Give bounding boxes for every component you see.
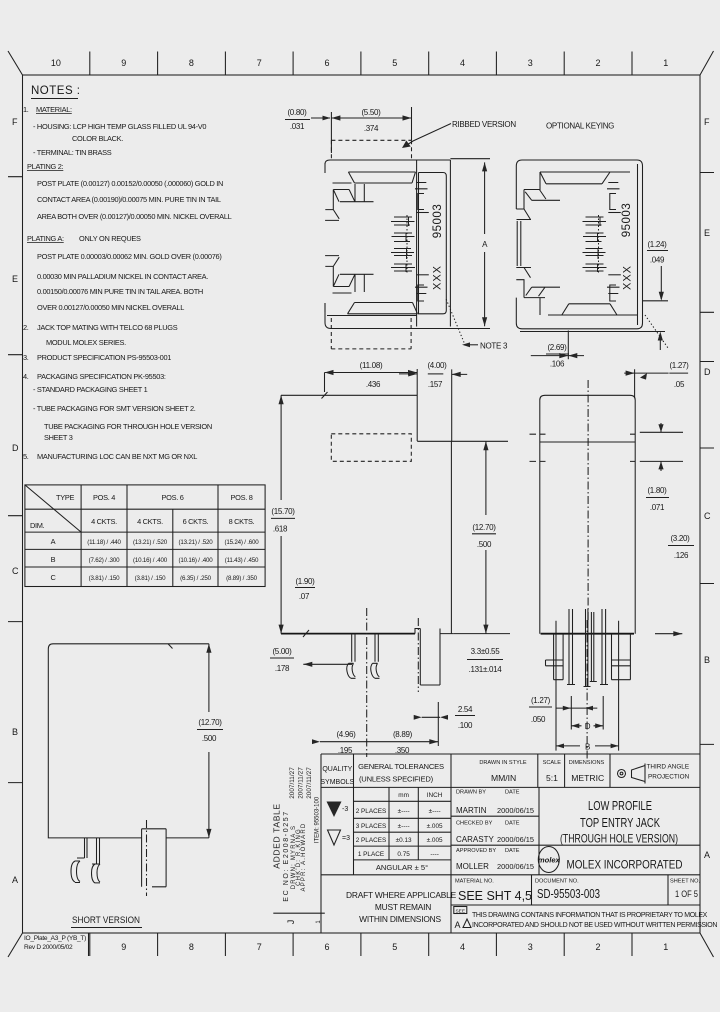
svg-text:(12.70): (12.70) xyxy=(472,523,496,532)
svg-text:2000/06/15: 2000/06/15 xyxy=(497,806,534,815)
svg-text:1.: 1. xyxy=(23,105,29,114)
svg-text:QUALITY: QUALITY xyxy=(322,766,352,773)
svg-text:±.005: ±.005 xyxy=(427,823,443,830)
svg-text:.100: .100 xyxy=(458,721,473,730)
post centerline xyxy=(146,820,148,896)
svg-text:(11.43) / .450: (11.43) / .450 xyxy=(225,557,259,564)
NOTES xyxy=(23,85,232,461)
MIDVIEW xyxy=(270,361,510,757)
dim 15.70/.618 xyxy=(280,395,282,633)
tolerance table text xyxy=(356,792,443,858)
svg-text:POS. 6: POS. 6 xyxy=(161,493,183,502)
left zone letters xyxy=(12,117,19,885)
keying tab double line xyxy=(517,221,521,266)
svg-text:SYMBOLS: SYMBOLS xyxy=(320,779,354,786)
svg-text:2 PLACES: 2 PLACES xyxy=(356,837,387,844)
svg-text:4 CKTS.: 4 CKTS. xyxy=(91,517,117,526)
pin hook left xyxy=(71,861,80,883)
top chamfer xyxy=(524,190,560,201)
TITLEBLOCK xyxy=(271,754,717,933)
svg-text:- TERMINAL: TIN BRASS: - TERMINAL: TIN BRASS xyxy=(33,148,112,157)
svg-text:(11.18) / .440: (11.18) / .440 xyxy=(87,539,121,546)
svg-text:95003: 95003 xyxy=(621,203,633,237)
note3 dotted leader right xyxy=(645,315,668,348)
svg-text:OVER 0.00127/0.00050 MIN NICKE: OVER 0.00127/0.00050 MIN NICKEL OVERALL xyxy=(37,303,184,312)
svg-text:A: A xyxy=(12,875,18,885)
svg-text:- STANDARD PACKAGING SHEET 1: - STANDARD PACKAGING SHEET 1 xyxy=(33,385,148,394)
post centerline xyxy=(417,618,419,692)
svg-text:(10.16) / .400: (10.16) / .400 xyxy=(178,557,213,564)
svg-text:C: C xyxy=(12,566,19,576)
svg-text:(6.35) / .250: (6.35) / .250 xyxy=(180,575,212,582)
svg-text:3: 3 xyxy=(528,942,533,952)
svg-text:SEE: SEE xyxy=(455,908,465,914)
svg-text:D: D xyxy=(12,443,19,453)
jack right edge xyxy=(449,160,451,327)
bottom trapezoid xyxy=(348,303,418,314)
svg-text:(12.70): (12.70) xyxy=(198,718,222,727)
extension lines xyxy=(556,621,619,751)
svg-text:4: 4 xyxy=(460,58,465,68)
corner cut bottom-left xyxy=(8,933,23,957)
svg-text:molex: molex xyxy=(538,856,561,865)
bottom zone ticks xyxy=(90,933,632,956)
cap line xyxy=(540,441,635,443)
svg-text:SHEET NO.: SHEET NO. xyxy=(670,879,700,885)
right zone letters xyxy=(704,117,711,860)
svg-text:DRAWN BY: DRAWN BY xyxy=(456,790,486,796)
svg-text:1: 1 xyxy=(663,942,668,952)
svg-text:3.: 3. xyxy=(23,353,29,362)
svg-text:METRIC: METRIC xyxy=(571,773,604,783)
svg-text:(10.16) / .400: (10.16) / .400 xyxy=(133,557,168,564)
svg-text:THIRD ANGLE: THIRD ANGLE xyxy=(647,764,690,771)
svg-text:.500: .500 xyxy=(477,540,492,549)
svg-text:- HOUSING: LCP HIGH TEMP GLASS: - HOUSING: LCP HIGH TEMP GLASS FILLED UL… xyxy=(33,122,206,131)
row line under header xyxy=(321,786,700,788)
bottom step xyxy=(562,304,617,315)
svg-text:B: B xyxy=(704,655,710,665)
svg-text:2007/11/27: 2007/11/27 xyxy=(306,767,313,799)
left edge stubs xyxy=(324,163,326,312)
svg-text:.157: .157 xyxy=(428,380,443,389)
svg-text:(4.96): (4.96) xyxy=(336,730,356,739)
svg-text:OPTIONAL KEYING: OPTIONAL KEYING xyxy=(546,122,614,131)
ribbed version dashed outline bottom xyxy=(331,318,411,349)
svg-text:J: J xyxy=(286,920,296,925)
extension tick xyxy=(322,392,328,399)
svg-text:DIM.: DIM. xyxy=(30,521,45,530)
svg-text:8 CKTS.: 8 CKTS. xyxy=(229,517,255,526)
svg-text:DATE: DATE xyxy=(505,821,520,827)
svg-text:(8.89): (8.89) xyxy=(393,730,413,739)
pin foot left xyxy=(347,663,356,678)
svg-text:±----: ±---- xyxy=(398,823,410,830)
outline xyxy=(321,754,700,933)
svg-text:(11.08): (11.08) xyxy=(360,361,383,370)
right zone ticks xyxy=(700,173,714,745)
bracket marks xyxy=(607,183,621,302)
pin feet xyxy=(567,682,608,687)
svg-text:PRODUCT SPECIFICATION PS-95503: PRODUCT SPECIFICATION PS-95503-001 xyxy=(37,353,171,362)
svg-text:1 OF 5: 1 OF 5 xyxy=(675,889,698,899)
svg-text:(UNLESS SPECIFIED): (UNLESS SPECIFIED) xyxy=(359,775,434,784)
dashed window xyxy=(331,434,411,462)
keying stepped profile xyxy=(516,190,545,298)
svg-text:A: A xyxy=(704,850,710,860)
svg-text:±----: ±---- xyxy=(398,808,410,815)
svg-text:.500: .500 xyxy=(202,734,217,743)
svg-text:TUBE PACKAGING FOR THROUGH HOL: TUBE PACKAGING FOR THROUGH HOLE VERSION xyxy=(44,422,212,431)
svg-text:----: ---- xyxy=(430,851,439,858)
svg-text:(1.24): (1.24) xyxy=(647,240,667,249)
post right xyxy=(612,634,631,680)
svg-text:(THROUGH HOLE VERSION): (THROUGH HOLE VERSION) xyxy=(560,833,678,846)
svg-text:E: E xyxy=(12,274,18,284)
body right edge xyxy=(450,441,452,633)
svg-text:MANUFACTURING LOC CAN BE NXT M: MANUFACTURING LOC CAN BE NXT MG OR NXL xyxy=(37,452,197,461)
svg-text:(4.00): (4.00) xyxy=(427,361,447,370)
svg-text:Rev D 2000/05/02: Rev D 2000/05/02 xyxy=(24,944,73,951)
bottom edge xyxy=(541,633,634,635)
svg-text:(2.69): (2.69) xyxy=(547,343,567,352)
svg-text:- TUBE PACKAGING FOR SMT VERSI: - TUBE PACKAGING FOR SMT VERSION SHEET 2… xyxy=(33,404,196,413)
bottom zone numbers xyxy=(121,942,668,952)
svg-text:B: B xyxy=(12,727,18,737)
svg-text:.126: .126 xyxy=(674,551,689,560)
svg-text:.050: .050 xyxy=(531,715,546,724)
svg-text:8: 8 xyxy=(189,58,194,68)
TABLE xyxy=(25,485,265,587)
svg-text:TYPE: TYPE xyxy=(56,493,74,502)
svg-text:2.: 2. xyxy=(23,323,29,332)
row A xyxy=(51,537,260,546)
svg-text:ADDED TABLE: ADDED TABLE xyxy=(271,803,281,869)
svg-text:5:1: 5:1 xyxy=(546,773,558,783)
svg-text:3 PLACES: 3 PLACES xyxy=(356,823,387,830)
inner outline xyxy=(540,164,638,325)
svg-text:XXX: XXX xyxy=(432,265,444,290)
svg-text:ANGULAR ± 5°: ANGULAR ± 5° xyxy=(376,863,428,872)
svg-text:CHECKED BY: CHECKED BY xyxy=(456,821,493,827)
svg-text:2000/06/15: 2000/06/15 xyxy=(497,835,534,844)
quality symbol filled triangle xyxy=(327,802,342,818)
height dim 12.70/.500 xyxy=(208,644,210,838)
svg-text:6: 6 xyxy=(324,58,329,68)
lower latch xyxy=(325,256,373,293)
dim 12.70/.500 xyxy=(485,441,487,633)
svg-text:(5.50): (5.50) xyxy=(361,108,381,117)
drawn by column xyxy=(538,787,540,874)
svg-text:.106: .106 xyxy=(550,360,565,369)
svg-text:±.005: ±.005 xyxy=(427,837,443,844)
A dim xyxy=(331,159,490,329)
svg-text:5.: 5. xyxy=(23,452,29,461)
svg-text:RIBBED VERSION: RIBBED VERSION xyxy=(452,120,516,129)
solder post xyxy=(142,829,167,887)
svg-text:ONLY ON REQUES: ONLY ON REQUES xyxy=(79,234,141,243)
svg-text:.07: .07 xyxy=(299,592,310,601)
svg-text:MUST REMAIN: MUST REMAIN xyxy=(375,902,431,912)
extension tick bottom xyxy=(303,630,309,637)
svg-text:4.: 4. xyxy=(23,372,29,381)
body outline xyxy=(516,160,642,329)
svg-text:4 CKTS.: 4 CKTS. xyxy=(137,517,163,526)
svg-text:NOTE 3: NOTE 3 xyxy=(480,342,508,351)
svg-text:(3.81) / .150: (3.81) / .150 xyxy=(135,575,167,582)
bottom chamfer xyxy=(526,287,560,296)
svg-text:DRAFT WHERE APPLICABLE: DRAFT WHERE APPLICABLE xyxy=(346,890,457,900)
pins xyxy=(569,609,606,686)
drawing frame xyxy=(23,75,701,933)
svg-text:APPR: A.HOWARD: APPR: A.HOWARD xyxy=(301,823,307,892)
svg-text:6: 6 xyxy=(324,942,329,952)
svg-text:(3.81) / .150: (3.81) / .150 xyxy=(89,575,121,582)
svg-text:.071: .071 xyxy=(650,503,665,512)
svg-text:(8.89) / .350: (8.89) / .350 xyxy=(226,575,258,582)
svg-text:2: 2 xyxy=(595,58,600,68)
svg-text:=3: =3 xyxy=(342,835,350,842)
centerline xyxy=(587,380,589,620)
svg-text:.031: .031 xyxy=(290,122,305,131)
pin hook right xyxy=(92,864,101,883)
svg-text:TOP ENTRY JACK: TOP ENTRY JACK xyxy=(580,816,660,830)
svg-text:(1.27): (1.27) xyxy=(531,696,551,705)
svg-text:.374: .374 xyxy=(364,124,379,133)
post left xyxy=(554,634,564,680)
svg-text:ITEM: 95503-100: ITEM: 95503-100 xyxy=(315,796,321,843)
svg-text:A: A xyxy=(51,537,56,546)
svg-text:MODUL MOLEX SERIES.: MODUL MOLEX SERIES. xyxy=(46,338,126,347)
svg-text:EC NO: E2008-0257: EC NO: E2008-0257 xyxy=(283,810,290,901)
front pins xyxy=(85,838,100,864)
svg-text:±----: ±---- xyxy=(429,808,441,815)
svg-text:F: F xyxy=(12,117,18,127)
svg-text:2 PLACES: 2 PLACES xyxy=(356,808,387,815)
svg-text:8: 8 xyxy=(189,942,194,952)
bottom extension line xyxy=(520,331,665,333)
svg-text:.178: .178 xyxy=(275,664,290,673)
svg-text:(13.21) / .520: (13.21) / .520 xyxy=(178,539,213,546)
corner cut bottom-right xyxy=(700,933,714,957)
pins xyxy=(352,634,379,662)
svg-text:mm: mm xyxy=(398,792,409,799)
svg-text:6 CKTS.: 6 CKTS. xyxy=(183,517,209,526)
svg-text:MM/IN: MM/IN xyxy=(491,773,516,783)
svg-text:POS. 8: POS. 8 xyxy=(230,493,252,502)
row B xyxy=(51,555,259,564)
svg-text:3: 3 xyxy=(528,58,533,68)
solder post xyxy=(420,629,440,686)
svg-text:PACKAGING SPECIFICATION PK-955: PACKAGING SPECIFICATION PK-95503: xyxy=(37,372,166,381)
svg-text:(15.24) / .600: (15.24) / .600 xyxy=(224,539,259,546)
svg-text:10: 10 xyxy=(51,58,61,68)
svg-text:POST PLATE (0.00127) 0.00152/0: POST PLATE (0.00127) 0.00152/0.00050 (.0… xyxy=(37,179,223,188)
svg-text:2: 2 xyxy=(595,942,600,952)
RIGHTJACK xyxy=(516,122,668,369)
svg-text:COLOR BLACK.: COLOR BLACK. xyxy=(72,134,123,143)
left zone ticks xyxy=(8,177,23,783)
see box xyxy=(454,907,467,914)
quality symbol open triangle xyxy=(328,830,341,845)
svg-text:INCH: INCH xyxy=(427,792,443,799)
svg-text:(7.62) / .300: (7.62) / .300 xyxy=(89,557,121,564)
svg-text:DOCUMENT NO.: DOCUMENT NO. xyxy=(535,879,579,885)
svg-text:SEE SHT 4,5: SEE SHT 4,5 xyxy=(458,889,532,903)
svg-text:2007/11/27: 2007/11/27 xyxy=(289,767,296,799)
svg-text:7: 7 xyxy=(257,942,262,952)
svg-text:-3: -3 xyxy=(342,806,348,813)
marking plate xyxy=(419,173,447,314)
svg-text:JACK TOP MATING WITH TELCO 68: JACK TOP MATING WITH TELCO 68 PLUGS xyxy=(37,323,178,332)
body centerline xyxy=(366,608,368,757)
svg-text:DATE: DATE xyxy=(505,790,520,796)
svg-text:INCORPORATED AND SHOULD NOT BE: INCORPORATED AND SHOULD NOT BE USED WITH… xyxy=(472,922,717,929)
svg-text:GENERAL TOLERANCES: GENERAL TOLERANCES xyxy=(358,762,444,771)
svg-text:.131±.014: .131±.014 xyxy=(469,665,503,674)
svg-text:DIMENSIONS: DIMENSIONS xyxy=(569,760,605,766)
row C xyxy=(50,573,257,582)
svg-text:POS. 4: POS. 4 xyxy=(93,493,115,502)
body top edge with dim extension xyxy=(281,394,417,396)
svg-text:E: E xyxy=(704,228,710,238)
svg-text:MARTIN: MARTIN xyxy=(456,806,487,815)
svg-text:THIS DRAWING CONTAINS INFORMAT: THIS DRAWING CONTAINS INFORMATION THAT I… xyxy=(472,912,708,919)
svg-text:5: 5 xyxy=(392,942,397,952)
contact comb xyxy=(391,215,415,273)
dim B xyxy=(556,745,619,747)
svg-text:2.54: 2.54 xyxy=(458,705,473,714)
svg-text:APPROVED BY: APPROVED BY xyxy=(456,848,496,854)
svg-text:C: C xyxy=(704,511,711,521)
svg-text:0.00030 MIN PALLADIUM NICKEL I: 0.00030 MIN PALLADIUM NICKEL IN CONTACT … xyxy=(37,272,208,281)
svg-text:(3.20): (3.20) xyxy=(670,534,690,543)
svg-text:SHEET 3: SHEET 3 xyxy=(44,433,73,442)
svg-text:7: 7 xyxy=(257,58,262,68)
pin foot right xyxy=(371,663,380,678)
dimension table grid xyxy=(25,485,265,587)
SHORTVIEW xyxy=(48,644,223,928)
top zone numbers xyxy=(51,58,668,68)
jack body bottom edge xyxy=(325,303,417,329)
svg-text:4: 4 xyxy=(460,942,465,952)
svg-text:PLATING 2:: PLATING 2: xyxy=(27,162,64,171)
svg-text:(0.80): (0.80) xyxy=(287,108,307,117)
svg-text:LOW PROFILE: LOW PROFILE xyxy=(588,799,652,813)
body outline xyxy=(540,395,635,633)
svg-text:DATE: DATE xyxy=(505,848,520,854)
third angle projection symbol xyxy=(618,770,626,778)
RIGHTVIEW xyxy=(529,361,694,759)
svg-text:SD-95503-003: SD-95503-003 xyxy=(537,887,600,901)
molex logo xyxy=(538,847,559,873)
corner cut top-left xyxy=(8,51,23,75)
svg-text:(1.80): (1.80) xyxy=(647,486,667,495)
svg-text:D: D xyxy=(704,367,711,377)
dim D xyxy=(571,725,603,727)
svg-text:F: F xyxy=(704,117,710,127)
svg-text:CONTACT AREA (0.00190)/0.00075: CONTACT AREA (0.00190)/0.00075 MIN. PURE… xyxy=(37,195,221,204)
svg-text:CARASTY: CARASTY xyxy=(456,835,494,844)
svg-text:WITHIN DIMENSIONS: WITHIN DIMENSIONS xyxy=(359,914,441,924)
svg-text:9: 9 xyxy=(121,942,126,952)
svg-text:3.3±0.55: 3.3±0.55 xyxy=(471,647,501,656)
svg-text:MATERIAL NO.: MATERIAL NO. xyxy=(455,879,494,885)
svg-text:PLATING A:: PLATING A: xyxy=(27,234,64,243)
svg-text:±0.13: ±0.13 xyxy=(396,837,412,844)
svg-text:1: 1 xyxy=(663,58,668,68)
sheet id box bottom-left xyxy=(88,933,90,956)
svg-text:(1.27): (1.27) xyxy=(669,361,689,370)
datum dashes xyxy=(530,434,636,461)
svg-text:(5.00): (5.00) xyxy=(272,647,292,656)
svg-text:SCALE: SCALE xyxy=(543,760,562,766)
contact comb xyxy=(583,215,607,273)
latch block xyxy=(417,369,508,441)
corner cut top-right xyxy=(700,51,714,75)
front face line xyxy=(416,160,418,327)
svg-text:95003: 95003 xyxy=(432,204,444,238)
svg-text:PROJECTION: PROJECTION xyxy=(648,774,690,781)
diagonal cell xyxy=(25,485,81,532)
svg-text:POST PLATE 0.00003/0.00062 MIN: POST PLATE 0.00003/0.00062 MIN. GOLD OVE… xyxy=(37,252,222,261)
svg-text:MOLEX INCORPORATED: MOLEX INCORPORATED xyxy=(567,858,683,872)
svg-text:(15.70): (15.70) xyxy=(271,507,295,516)
svg-text:XXX: XXX xyxy=(622,265,634,290)
svg-text:(1.90): (1.90) xyxy=(295,577,315,586)
svg-text:2000/06/15: 2000/06/15 xyxy=(497,862,534,871)
top trapezoid xyxy=(348,172,415,183)
body bottom edge xyxy=(281,633,415,635)
svg-text:NOTES :: NOTES : xyxy=(31,85,81,97)
svg-text:.618: .618 xyxy=(273,525,288,534)
svg-text:2007/11/27: 2007/11/27 xyxy=(298,767,305,799)
svg-text:SHORT VERSION: SHORT VERSION xyxy=(72,915,140,926)
svg-text:DRAWN IN STYLE: DRAWN IN STYLE xyxy=(479,760,527,766)
upper latch xyxy=(325,183,373,220)
note3 leader xyxy=(446,299,465,345)
svg-text:B: B xyxy=(51,555,56,564)
jack body top edge xyxy=(325,160,450,164)
svg-text:MOLLER: MOLLER xyxy=(456,862,489,871)
svg-text:.436: .436 xyxy=(366,380,381,389)
svg-text:AREA BOTH OVER (0.00127)/0.000: AREA BOTH OVER (0.00127)/0.00050 MIN. NI… xyxy=(37,212,232,221)
top zone ticks xyxy=(90,52,632,76)
header pos labels xyxy=(91,493,255,526)
svg-text:0.00150/0.00076 MIN PURE TIN I: 0.00150/0.00076 MIN PURE TIN IN TAIL ARE… xyxy=(37,287,203,296)
svg-text:9: 9 xyxy=(121,58,126,68)
svg-text:.049: .049 xyxy=(650,256,665,265)
svg-text:A: A xyxy=(455,920,461,930)
svg-text:D: D xyxy=(585,722,591,731)
short version body outline xyxy=(48,644,209,838)
tolerance table grid xyxy=(354,754,452,933)
svg-text:5: 5 xyxy=(392,58,397,68)
top-right notch xyxy=(168,644,173,649)
top trapezoid xyxy=(540,172,610,184)
bracket marks xyxy=(415,183,429,302)
svg-text:1 PLACE: 1 PLACE xyxy=(358,851,384,858)
svg-text:.05: .05 xyxy=(674,380,685,389)
ribbed version dashed outline top xyxy=(331,140,411,159)
doc row xyxy=(321,874,700,876)
svg-text:0.75: 0.75 xyxy=(397,851,410,858)
svg-text:IO_Plate_A3_P (YB_T): IO_Plate_A3_P (YB_T) xyxy=(24,935,86,942)
svg-text:MATERIAL:: MATERIAL: xyxy=(36,105,72,114)
svg-text:(13.21) / .520: (13.21) / .520 xyxy=(133,539,168,546)
